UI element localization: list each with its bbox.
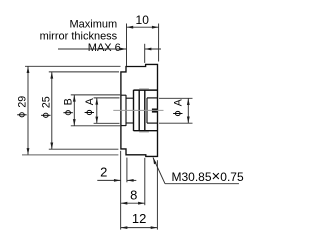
dimension phiA right (187, 98, 189, 123)
mirror seat wall (144, 90, 146, 131)
dimension phi29 (27, 66, 29, 155)
MAX6 leader right (145, 48, 161, 50)
extension line phi29 bottom (thick gray) (22, 154, 118, 156)
extension line phi29 top (25, 65, 121, 67)
svg-text:10: 10 (136, 13, 150, 27)
label phiA left (84, 97, 96, 114)
front recess edge bottom (120, 125, 126, 127)
dimension 10 (127, 26, 159, 28)
large bore edge bottom (134, 130, 158, 132)
extension 8-dim right (144, 158, 146, 205)
label phi25 (40, 96, 52, 117)
svg-text:M30.85×0.75: M30.85×0.75 (172, 168, 244, 185)
svg-text:25: 25 (40, 96, 52, 108)
svg-text:MAX 6: MAX 6 (88, 42, 121, 54)
extension line 10-dim right (158, 24, 160, 62)
dimension 2 (97, 179, 120, 181)
shared left extension (front face plane) (120, 151, 122, 230)
phi A bore edge bottom (126, 122, 134, 124)
rear plate wall (146, 98, 148, 123)
bore step wall (133, 90, 135, 131)
recess back wall (phi B span) (125, 95, 127, 126)
extension line phiA top (94, 97, 120, 99)
extension 12-dim right (156, 160, 158, 229)
centerline axis (113, 109, 163, 111)
svg-text:2: 2 (100, 165, 107, 180)
groove wall 1 (138, 90, 140, 131)
extension lines phiA right (159, 97, 193, 99)
large bore edge top (134, 89, 158, 91)
dimension 12 (121, 227, 158, 229)
rear hole edge bottom (147, 122, 158, 124)
extension line phiB top (71, 94, 120, 96)
rear hole edge top (147, 97, 158, 99)
svg-text:29: 29 (16, 96, 28, 108)
svg-text:12: 12 (132, 211, 146, 226)
phi A bore edge top (126, 97, 134, 99)
extension line phiB bottom (71, 125, 120, 127)
svg-text:A: A (172, 98, 184, 106)
svg-text:A: A (84, 97, 96, 105)
label phi29 (16, 96, 28, 117)
label phiA right (172, 98, 184, 115)
extension 2-dim right (126, 158, 128, 183)
extension line phiA bottom (94, 122, 120, 124)
mount body outline (121, 64, 158, 156)
thread callout leader (153, 158, 165, 184)
extension line phi25 bottom (49, 148, 119, 150)
dimension phi25 (51, 72, 53, 149)
front recess edge top (phi B pocket) (120, 94, 126, 96)
dimension phiA left (96, 98, 98, 123)
svg-text:Maximum: Maximum (70, 18, 118, 30)
thread crest line top (139, 88, 149, 90)
label phiB (63, 98, 75, 114)
MAX6 leader left (58, 48, 127, 50)
extension line phi25 top (49, 71, 119, 73)
thread callout underline (165, 183, 239, 185)
MAX6 extension right (144, 44, 146, 63)
thread crest line bottom (139, 131, 149, 133)
svg-text:B: B (63, 98, 75, 105)
extension line 10-dim left (126, 24, 128, 67)
svg-text:mirror thickness: mirror thickness (40, 30, 118, 42)
dimension 8 (121, 202, 145, 204)
svg-text:8: 8 (130, 188, 137, 203)
dimension phiB (73, 95, 75, 126)
center boss block (152, 109, 157, 112)
